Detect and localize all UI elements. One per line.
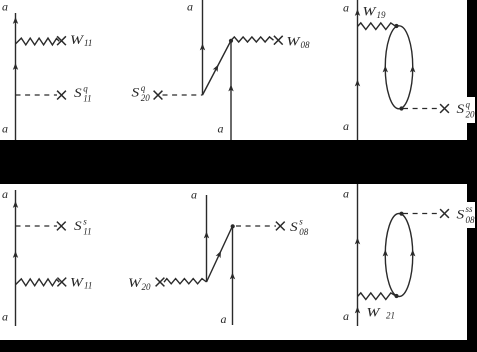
svg-text:S: S [457,103,465,116]
svg-text:08: 08 [466,215,476,225]
svg-text:a: a [2,187,8,201]
svg-text:21: 21 [386,311,395,321]
svg-text:a: a [2,0,8,14]
white figure background row 2 [0,184,467,340]
svg-text:11: 11 [84,280,92,290]
quark propagator diagonal [203,41,232,96]
cross insertion S11s [57,222,66,231]
arrow on loop right [410,65,415,72]
quark loop [385,26,413,109]
S11s dashed scalar line [16,225,58,227]
svg-text:a: a [221,312,227,326]
cross insertion S20q [440,104,449,113]
S08s dashed scalar line [236,225,276,227]
svg-text:W: W [287,35,301,49]
arrow on quark line [13,63,18,70]
cross insertion W11 [57,278,66,287]
svg-text:s: s [299,217,303,227]
W20 zigzag boson line [164,279,207,284]
wire: quark line [15,13,17,140]
svg-text:W: W [128,276,142,290]
svg-text:S: S [290,221,298,234]
arrow [230,272,235,279]
svg-text:S: S [74,220,82,233]
svg-text:11: 11 [84,38,92,48]
svg-text:q: q [83,84,88,94]
svg-text:W: W [363,5,377,19]
quark line [357,184,359,326]
junction blob [394,294,398,298]
vertex blob [229,39,233,43]
svg-text:11: 11 [83,227,91,237]
svg-text:20: 20 [142,282,152,292]
arrow [13,251,18,258]
white figure background row 1 [0,0,467,140]
cross insertion W08 [274,36,283,45]
svg-text:20: 20 [141,93,151,103]
arrow on diagonal [216,250,224,259]
svg-text:S: S [457,209,465,222]
quark line top [202,0,204,95]
W11 zigzag boson line [16,279,60,286]
arrow on loop left [383,249,388,256]
arrow [355,237,360,244]
quark line [15,190,17,326]
cross insertion S08s [276,222,285,231]
W08 zigzag boson line [231,37,274,42]
arrow on loop left [383,65,388,72]
svg-text:S: S [132,87,140,100]
cross insertion W11 [57,36,66,45]
svg-text:a: a [187,0,193,14]
arrow on diagonal [213,63,221,72]
svg-text:20: 20 [466,110,476,120]
svg-text:a: a [343,1,349,15]
quark line bottom [230,41,232,141]
svg-text:S: S [74,87,82,100]
cross insertion S11q [57,91,66,100]
svg-text:W: W [70,276,84,290]
arrow [355,79,360,86]
svg-text:ss: ss [466,204,474,214]
svg-text:a: a [2,310,8,324]
S11q dashed scalar line [16,94,58,96]
arrow on loop right [410,249,415,256]
arrow on quark line [13,17,18,24]
junction blob [399,212,403,216]
svg-text:a: a [343,309,349,323]
svg-text:a: a [218,122,224,136]
svg-text:W: W [70,33,84,47]
svg-text:08: 08 [299,227,309,237]
W19 zigzag boson line to loop [358,23,396,30]
quark line top [206,195,208,282]
junction blob [394,24,398,28]
arrow [204,231,209,238]
arrow [228,84,233,91]
quark propagator diagonal [207,226,233,282]
svg-text:11: 11 [83,94,91,104]
cross insertion S08ss [440,209,449,218]
arrow [355,306,360,313]
svg-text:a: a [191,188,197,202]
svg-text:q: q [141,83,146,93]
quark line bottom [232,226,234,325]
svg-text:a: a [2,122,8,136]
svg-text:19: 19 [377,10,387,20]
dashed scalar line [163,94,203,96]
arrow [355,9,360,16]
S20q dashed scalar line [403,108,440,110]
svg-text:s: s [83,217,87,227]
svg-text:a: a [343,187,349,201]
arrow [13,201,18,208]
svg-text:a: a [343,119,349,133]
svg-text:08: 08 [301,40,311,50]
svg-text:W: W [367,306,381,320]
cross insertion W20 [156,278,165,287]
quark line [357,0,359,140]
vertex blob [231,224,235,228]
svg-text:q: q [466,100,471,110]
junction blob [399,106,403,110]
cross insertion S20q [154,91,163,100]
S08ss dashed scalar line [403,213,440,215]
W21 zigzag boson line to loop [358,293,396,300]
arrow [200,43,205,50]
W11 zigzag boson line [16,38,60,45]
quark loop [385,214,413,297]
